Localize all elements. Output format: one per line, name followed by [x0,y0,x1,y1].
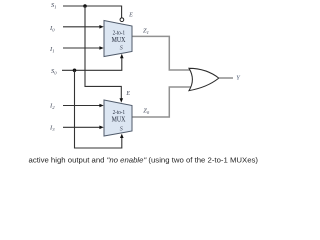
svg-text:Z1: Z1 [143,28,149,35]
svg-text:S: S [120,45,123,51]
wire I0 to top MUX [63,25,104,29]
svg-text:S: S [120,127,123,133]
svg-text:Y: Y [236,74,241,81]
mux U1 enable bubble [120,18,124,22]
wire S0 to top MUX select [62,54,124,71]
mux U1 label "2-to-1 MUX" [112,29,126,44]
wire I3 to bottom MUX [63,126,104,130]
svg-text:MUX: MUX [112,35,126,44]
svg-text:E: E [128,12,133,18]
svg-text:E: E [125,91,130,97]
svg-text:S1: S1 [51,2,57,9]
or gate U3 [189,68,219,90]
junction node on S1 wire [83,4,87,8]
wire S0 branch to bottom MUX select [75,70,124,148]
svg-text:Z0: Z0 [143,107,150,114]
svg-text:I0: I0 [49,25,55,32]
svg-text:I1: I1 [49,46,54,53]
mux U1 output wire Z1 to OR gate [133,36,192,70]
mux U2 output wire Z0 to OR gate [133,87,192,117]
mux U2 label "2-to-1 MUX" [112,109,126,124]
mux U2 (bottom 2-to-1 MUX) [104,100,132,136]
svg-text:active high output and "no ena: active high output and "no enable" (usin… [29,155,259,164]
wire I2 to bottom MUX [63,104,104,108]
svg-text:S0: S0 [51,68,57,75]
wire Y output [219,77,233,79]
wire S1 to top MUX enable [63,6,122,18]
svg-text:I2: I2 [49,103,55,110]
wire S1 branch to bottom MUX enable [85,6,123,103]
junction node on S0 wire [73,69,77,73]
wire I1 to top MUX [63,46,104,50]
svg-text:I3: I3 [49,125,55,132]
svg-text:MUX: MUX [112,115,126,124]
mux U1 (top 2-to-1 MUX) [104,21,132,57]
